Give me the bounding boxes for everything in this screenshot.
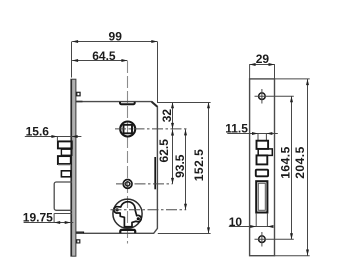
svg-text:93.5: 93.5	[173, 154, 187, 178]
vertical centerline (spindle/cylinder axis)	[127, 61, 129, 244]
latch bolt segment B	[61, 149, 71, 155]
top screw lug	[76, 92, 81, 97]
dim 62.5	[172, 130, 174, 184]
top mounting tab	[120, 102, 135, 104]
dim 29	[250, 64, 275, 66]
spindle h-centerline	[115, 128, 187, 130]
dark segment at case top-left	[76, 101, 83, 103]
dim 10	[255, 213, 257, 227]
dim 99	[72, 41, 157, 43]
latch front B2	[258, 149, 272, 156]
latch bolt segment C	[58, 156, 71, 164]
svg-text:64.5: 64.5	[92, 49, 116, 63]
dim 15.6	[25, 136, 82, 138]
cylinder h-centerline	[111, 209, 187, 211]
deadbolt (side view)	[54, 182, 72, 210]
svg-text:15.6: 15.6	[26, 125, 50, 139]
dim 164.5	[291, 96, 293, 239]
svg-text:62.5: 62.5	[157, 139, 171, 163]
svg-text:19.75: 19.75	[23, 211, 53, 225]
svg-text:99: 99	[109, 29, 123, 43]
euro cylinder hole	[113, 199, 142, 228]
case top extension line	[158, 102, 211, 104]
svg-text:29: 29	[256, 52, 270, 66]
latch neck extensions	[257, 133, 259, 140]
svg-text:32: 32	[160, 109, 174, 123]
dim 152.5	[208, 103, 210, 234]
dim 19.75	[24, 222, 74, 224]
cylinder fixing screw hole	[123, 180, 132, 189]
svg-text:164.5: 164.5	[278, 146, 292, 179]
top-right chamfer accent	[152, 102, 158, 107]
svg-text:10: 10	[229, 215, 243, 229]
side tab on case right edge	[154, 157, 156, 189]
dim 64.5	[72, 60, 127, 62]
dim 32	[172, 103, 174, 129]
dim 93.5	[185, 129, 187, 209]
aux pin front B4	[256, 170, 268, 177]
bottom screw lug	[76, 239, 81, 243]
bottom-left step on case	[76, 232, 84, 233]
latch front B3	[257, 155, 268, 164]
svg-text:152.5: 152.5	[192, 149, 206, 182]
bottom screw hole	[259, 236, 266, 243]
svg-text:204.5: 204.5	[293, 146, 307, 179]
auxiliary pin D	[61, 171, 70, 177]
cylinder cam profile	[114, 202, 141, 227]
lock case outline	[76, 102, 158, 234]
latch shadow line	[58, 164, 71, 166]
deadbolt cutout	[256, 181, 267, 212]
cam screw dot left	[116, 208, 119, 211]
bottom mounting tab	[120, 230, 135, 233]
spindle hub	[120, 122, 135, 137]
screw h-centerline	[116, 183, 173, 185]
dim 11.5	[227, 133, 277, 135]
top screw hole	[259, 93, 266, 100]
cam screw dot right	[137, 217, 140, 220]
svg-text:11.5: 11.5	[225, 121, 248, 135]
latch front B1	[257, 141, 269, 149]
faceplate front outline	[250, 79, 275, 256]
case bottom extension line	[158, 233, 211, 235]
latch bolt segment A	[58, 141, 72, 148]
dim 204.5	[275, 78, 310, 80]
faceplate (side view)	[71, 79, 76, 256]
